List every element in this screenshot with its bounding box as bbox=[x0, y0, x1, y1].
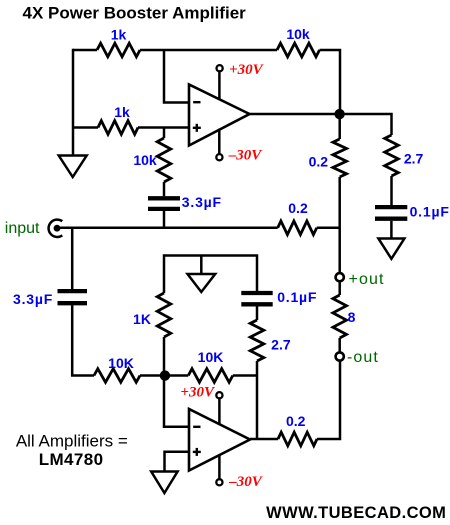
op-amp U2 bbox=[189, 409, 250, 471]
node -out circle bbox=[336, 352, 344, 360]
wire top rail right corner down to output node bbox=[320, 50, 341, 114]
ground G2 bbox=[188, 274, 216, 292]
resistor R12 2.7 vertical bbox=[385, 135, 399, 176]
wire left vertical bbox=[72, 49, 75, 156]
svg-text:1K: 1K bbox=[133, 311, 151, 327]
svg-text:3.3µF: 3.3µF bbox=[13, 291, 53, 307]
wire input tee down to C2 bbox=[71, 228, 74, 289]
svg-text:10K: 10K bbox=[108, 355, 134, 371]
U1 -30V pin circle bbox=[216, 154, 222, 160]
svg-text:-out: -out bbox=[347, 349, 379, 366]
wire non-inverting rail bbox=[73, 126, 98, 129]
wire R5 to right rail bbox=[317, 227, 340, 230]
svg-text:4X Power Booster Amplifier: 4X Power Booster Amplifier bbox=[23, 4, 247, 23]
U1 +30V pin circle bbox=[217, 65, 223, 71]
wire R11 down to +out bbox=[338, 177, 341, 274]
wire top rail middle segment bbox=[140, 49, 277, 52]
svg-text:2.7: 2.7 bbox=[271, 337, 291, 353]
U2 +30V stem bbox=[218, 398, 221, 424]
resistor R7 1K vertical bbox=[157, 293, 171, 337]
wire U2 output bbox=[250, 438, 278, 441]
ground G4 bbox=[151, 472, 177, 494]
svg-text:3.3µF: 3.3µF bbox=[182, 194, 222, 210]
U1 minus sign bbox=[193, 101, 200, 103]
resistor R9 10K bbox=[188, 369, 233, 383]
svg-text:10k: 10k bbox=[286, 26, 310, 42]
svg-text:1k: 1k bbox=[111, 27, 127, 43]
node +out circle bbox=[336, 273, 344, 281]
svg-text:–30V: –30V bbox=[228, 148, 264, 164]
wire C1 to input rail bbox=[163, 211, 166, 228]
wire R4 to C1 bbox=[163, 182, 166, 196]
U1 -30V stem bbox=[218, 129, 221, 155]
svg-text:8: 8 bbox=[348, 309, 356, 325]
op-amp U1 bbox=[189, 85, 250, 146]
capacitor C4 0.1uF bbox=[375, 205, 407, 209]
capacitor C2 3.3uF bbox=[58, 289, 88, 293]
wire R8 down to feedback rail bbox=[256, 361, 259, 439]
svg-text:0.2: 0.2 bbox=[286, 413, 306, 429]
wire R6 to junction dot bbox=[140, 374, 165, 377]
svg-text:1k: 1k bbox=[114, 104, 130, 120]
resistor R2 10k bbox=[277, 43, 320, 57]
svg-text:All Amplifiers =: All Amplifiers = bbox=[16, 432, 128, 451]
junction dot D2 bbox=[160, 370, 170, 380]
wire C3 to R8 bbox=[256, 306, 259, 320]
resistor R10 0.2 bbox=[278, 432, 317, 446]
U1 +30V stem bbox=[218, 71, 221, 99]
wire inverting input drop bbox=[164, 50, 189, 103]
svg-text:–30V: –30V bbox=[228, 474, 264, 490]
wire R13 to -out bbox=[338, 338, 341, 353]
capacitor C1 3.3uF bbox=[148, 196, 180, 200]
svg-text:+out: +out bbox=[349, 271, 385, 288]
junction dot D1 bbox=[334, 109, 344, 119]
wire U2 plus input and ground drop bbox=[165, 452, 190, 472]
wire input rail bbox=[60, 227, 278, 230]
svg-text:+30V: +30V bbox=[180, 384, 216, 400]
svg-text:0.1µF: 0.1µF bbox=[410, 204, 450, 220]
U2 +30V pin circle bbox=[216, 392, 222, 398]
ground G3 bbox=[378, 239, 404, 259]
U2 -30V pin circle bbox=[216, 479, 222, 485]
svg-text:input: input bbox=[5, 220, 40, 237]
wire +out to R13 bbox=[338, 282, 341, 295]
wire junction down to U2 minus bbox=[164, 376, 189, 427]
wire top rail left segment bbox=[73, 49, 97, 52]
resistor R5 0.2 bbox=[278, 221, 317, 235]
resistor R6 10K bbox=[94, 369, 140, 383]
svg-text:WWW.TUBECAD.COM: WWW.TUBECAD.COM bbox=[266, 504, 446, 522]
svg-text:2.7: 2.7 bbox=[404, 150, 424, 166]
U2 -30V stem bbox=[218, 455, 221, 479]
svg-text:0.2: 0.2 bbox=[288, 200, 308, 216]
wire C2 down and right to junction bbox=[72, 305, 94, 375]
resistor R4 10k vertical bbox=[157, 138, 171, 182]
wire output node down to R11 bbox=[338, 114, 341, 139]
wire R12 to C4 bbox=[390, 176, 393, 205]
wire R4 top stub bbox=[163, 128, 166, 139]
resistor R11 0.2 vertical bbox=[333, 139, 347, 177]
wire R7 top to ground rail bbox=[164, 256, 257, 294]
wire R9 to feedback node bbox=[233, 374, 257, 377]
wire R10 corner up to -out bbox=[317, 361, 340, 439]
ground G1 bbox=[59, 156, 87, 178]
wire U1 output bbox=[250, 113, 341, 116]
wire junction to R9 bbox=[165, 374, 188, 377]
svg-text:LM4780: LM4780 bbox=[39, 450, 104, 469]
wire output node right branch bbox=[340, 114, 392, 135]
U2 minus sign bbox=[193, 426, 200, 428]
svg-text:+30V: +30V bbox=[229, 62, 265, 78]
wire to plus input bbox=[138, 126, 189, 129]
resistor R13 8 vertical bbox=[333, 295, 347, 338]
resistor R3 1k bbox=[98, 121, 138, 135]
svg-text:0.2: 0.2 bbox=[309, 154, 329, 170]
U2 plus sign bbox=[193, 451, 201, 453]
capacitor C3 0.1uF bbox=[241, 291, 272, 295]
wire C4 to G3 bbox=[390, 221, 393, 239]
svg-text:10K: 10K bbox=[198, 349, 224, 365]
wire junction up to R7 bbox=[163, 337, 166, 376]
resistor R8 2.7 vertical bbox=[250, 320, 264, 361]
svg-text:0.1µF: 0.1µF bbox=[277, 289, 317, 305]
resistor R1 1k bbox=[97, 43, 140, 57]
U1 plus sign bbox=[193, 127, 201, 129]
ground G2 stem bbox=[200, 256, 203, 275]
svg-text:10k: 10k bbox=[133, 152, 157, 168]
input connector bbox=[49, 220, 63, 237]
